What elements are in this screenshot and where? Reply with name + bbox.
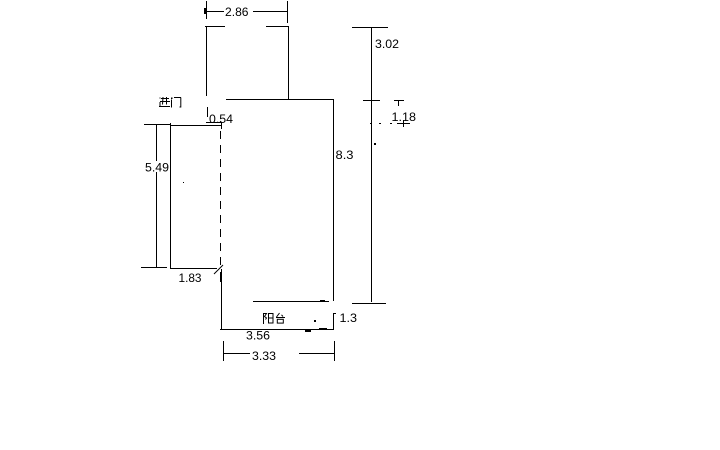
- svg-text:0.54: 0.54: [209, 112, 233, 126]
- svg-text:1.83: 1.83: [179, 271, 202, 285]
- svg-text:5.49: 5.49: [145, 161, 169, 175]
- svg-text:1.18: 1.18: [392, 110, 417, 124]
- svg-text:3.56: 3.56: [246, 329, 270, 343]
- svg-text:3.33: 3.33: [252, 349, 276, 363]
- svg-text:3.02: 3.02: [375, 37, 399, 51]
- svg-text:2.86: 2.86: [225, 5, 249, 19]
- svg-text:1.3: 1.3: [340, 311, 358, 325]
- svg-text:8.3: 8.3: [336, 148, 354, 162]
